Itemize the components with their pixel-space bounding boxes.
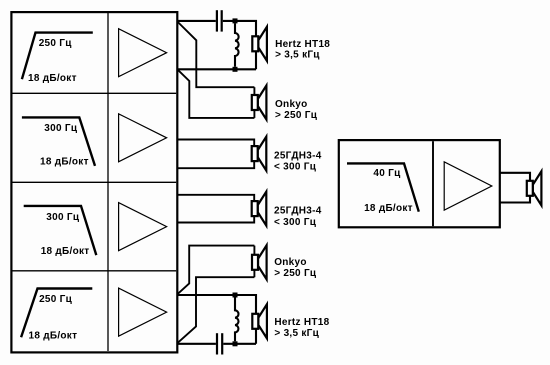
- speaker woofer 25ГДН3-4 no.1: [252, 137, 267, 171]
- amplifier A1: [119, 29, 167, 77]
- speaker Onkyo 2: [252, 245, 267, 279]
- capacitor C1 plate 1: [216, 10, 218, 31]
- subwoofer block divider: [432, 141, 434, 226]
- wire ch4 minus to capacitor: [177, 343, 216, 345]
- svg-text:> 250 Гц: > 250 Гц: [274, 268, 317, 279]
- wire Onkyo 1 terminal edge: [253, 87, 255, 118]
- wire ch1 plus to capacitor: [177, 20, 216, 22]
- wire tap ch1 plus to Onkyo 1: [177, 22, 254, 88]
- wire capacitor C2 to junction: [223, 343, 256, 345]
- svg-text:Hertz HT18: Hertz HT18: [274, 317, 329, 328]
- svg-text:250 Гц: 250 Гц: [39, 38, 73, 49]
- junction node bottom crossover plus: [233, 293, 238, 298]
- row divider 2: [13, 181, 177, 183]
- row divider 3: [13, 270, 177, 272]
- capacitor C2 plate 2: [221, 333, 223, 354]
- wire loop ch3 to woofer 2: [177, 195, 254, 223]
- svg-text:18 дБ/окт: 18 дБ/окт: [28, 73, 77, 84]
- main amplifier block outline: [11, 12, 177, 352]
- wire Onkyo 2 terminal edge: [253, 246, 255, 278]
- amplifier A3: [119, 203, 167, 251]
- row divider 1: [13, 92, 177, 94]
- amplifier A5: [444, 162, 492, 210]
- speaker Onkyo 1: [252, 86, 267, 120]
- amplifier A4: [119, 288, 167, 336]
- subwoofer amplifier block outline: [339, 140, 500, 227]
- wire tap ch4 plus to Onkyo 2: [177, 246, 254, 295]
- svg-text:40 Гц: 40 Гц: [373, 168, 401, 179]
- wire capacitor to tweeter 1: [223, 21, 256, 69]
- svg-text:18 дБ/окт: 18 дБ/окт: [41, 246, 90, 257]
- junction node bottom crossover minus: [233, 341, 238, 346]
- svg-text:> 250 Гц: > 250 Гц: [275, 110, 318, 121]
- svg-text:Onkyo: Onkyo: [275, 99, 308, 110]
- svg-text:250 Гц: 250 Гц: [39, 294, 73, 305]
- inductor L1: [235, 23, 239, 66]
- inductor L2: [235, 298, 238, 342]
- svg-text:300 Гц: 300 Гц: [44, 123, 78, 134]
- wire loop ch2 to woofer 1: [177, 140, 254, 169]
- wire tap ch4 minus to Onkyo 2: [177, 277, 254, 343]
- svg-text:25ГДН3-4: 25ГДН3-4: [274, 206, 322, 217]
- wire ch4 plus: [177, 295, 256, 344]
- speaker woofer 25ГДН3-4 no.2: [252, 192, 267, 226]
- svg-text:18 дБ/окт: 18 дБ/окт: [29, 331, 78, 342]
- column divider: [107, 13, 109, 351]
- capacitor C2 plate 1: [216, 333, 218, 354]
- capacitor C1 plate 2: [221, 10, 223, 31]
- svg-text:< 300 Гц: < 300 Гц: [274, 217, 317, 228]
- high-pass filter curve channel 4: [21, 289, 92, 338]
- low-pass filter curve subwoofer: [347, 163, 419, 211]
- low-pass filter curve channel 3: [24, 206, 97, 255]
- svg-text:> 3,5 кГц: > 3,5 кГц: [274, 328, 319, 339]
- wire ch1 minus: [177, 68, 256, 70]
- svg-text:300 Гц: 300 Гц: [46, 212, 80, 223]
- low-pass filter curve channel 2: [22, 117, 95, 165]
- svg-text:18 дБ/окт: 18 дБ/окт: [40, 157, 89, 168]
- speaker Hertz HT18 top: [252, 27, 267, 61]
- high-pass filter curve channel 1: [22, 33, 93, 80]
- wire tap ch1 minus to Onkyo 1: [177, 69, 254, 118]
- junction node top crossover plus: [233, 18, 238, 23]
- svg-text:> 3,5 кГц: > 3,5 кГц: [275, 49, 320, 60]
- speaker Hertz HT18 bottom: [252, 304, 267, 338]
- wire loop subwoofer: [500, 173, 530, 203]
- svg-text:18 дБ/окт: 18 дБ/окт: [364, 203, 413, 214]
- svg-text:< 300 Гц: < 300 Гц: [274, 162, 317, 173]
- svg-text:Onkyo: Onkyo: [274, 257, 307, 268]
- amplifier A2: [119, 114, 167, 162]
- svg-text:25ГДН3-4: 25ГДН3-4: [274, 150, 322, 161]
- junction node top crossover minus: [233, 67, 238, 72]
- speaker subwoofer: [527, 171, 542, 205]
